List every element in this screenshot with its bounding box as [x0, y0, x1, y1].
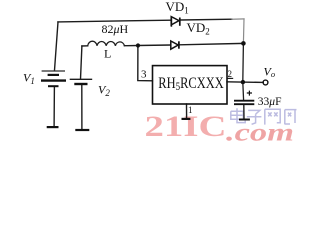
svg-text:VD1: VD1 — [166, 0, 189, 16]
svg-text:2: 2 — [228, 69, 233, 79]
svg-text:V2: V2 — [98, 83, 110, 99]
svg-text:.com: .com — [226, 120, 294, 147]
svg-text:VD2: VD2 — [187, 20, 210, 37]
svg-text:V1: V1 — [23, 71, 35, 87]
svg-text:21IC: 21IC — [145, 110, 227, 143]
svg-text:Vo: Vo — [264, 64, 276, 79]
svg-text:3: 3 — [141, 69, 147, 81]
svg-text:1: 1 — [188, 105, 193, 115]
svg-text:RH5RCXXX: RH5RCXXX — [158, 75, 224, 94]
svg-text:82μH: 82μH — [102, 22, 129, 36]
svg-text:33μF: 33μF — [258, 96, 282, 108]
svg-text:L: L — [104, 47, 111, 61]
